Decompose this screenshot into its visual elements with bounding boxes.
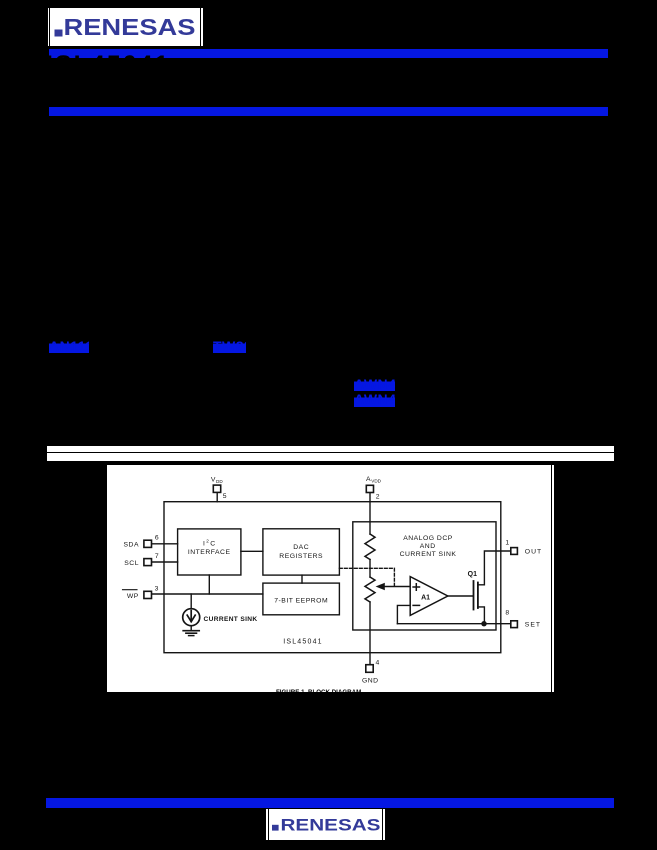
wire avdd down to resistor top bbox=[369, 493, 371, 535]
svg-text:1: 1 bbox=[505, 539, 509, 546]
wire i2c bottom to wp line bbox=[208, 575, 210, 594]
svg-text:GND: GND bbox=[362, 678, 379, 685]
dac registers block bbox=[263, 529, 340, 575]
wiper wire to op-amp bbox=[384, 586, 411, 588]
figure caption (mostly below panel, top sliver visible) bbox=[276, 690, 361, 696]
pin square WP (3) bbox=[144, 591, 152, 598]
svg-text:INTERFACE: INTERFACE bbox=[188, 549, 231, 556]
resistor zigzag upper (dcp) bbox=[365, 534, 375, 560]
link blob 4 bbox=[354, 393, 395, 407]
top logo box bbox=[48, 8, 203, 46]
op-amp A1 bbox=[410, 577, 448, 616]
set node junction dot bbox=[481, 621, 486, 626]
double horizontal rule bbox=[47, 446, 614, 461]
current sink arrow bbox=[190, 611, 192, 622]
resistor zigzag lower (dcp) bbox=[365, 577, 375, 602]
svg-text:ANALOG DCP: ANALOG DCP bbox=[403, 535, 453, 542]
svg-text:3: 3 bbox=[155, 586, 159, 593]
outer box ISL45041 bbox=[164, 502, 501, 653]
transistor Q1 channel bar bbox=[477, 583, 479, 609]
svg-text:REGISTERS: REGISTERS bbox=[279, 553, 323, 560]
link blob 2 bbox=[213, 339, 246, 353]
pin square VDD (5) bbox=[213, 485, 220, 492]
renesas logo bottom bbox=[266, 809, 384, 841]
i2c interface block bbox=[178, 529, 241, 575]
svg-text:WP: WP bbox=[127, 593, 139, 600]
title text (black, mostly invisible, top overlaps bar) bbox=[46, 53, 170, 78]
svg-text:2: 2 bbox=[206, 538, 209, 543]
blue bar 2 bbox=[49, 107, 608, 116]
wire scl to i2c bbox=[152, 561, 178, 563]
svg-text:7: 7 bbox=[155, 553, 159, 560]
link blob 3 bbox=[354, 377, 395, 391]
bottom logo box bbox=[266, 809, 384, 841]
set / feedback wire bbox=[397, 623, 510, 625]
wire op-amp output to gate bbox=[448, 595, 473, 597]
renesas logo top bbox=[48, 8, 203, 46]
svg-text:4: 4 bbox=[376, 659, 380, 666]
pin square SCL (7) bbox=[144, 559, 152, 566]
pin square SET (8) bbox=[511, 621, 518, 628]
link blob 1 bbox=[49, 339, 89, 353]
feedback to op-amp minus bbox=[397, 605, 410, 623]
svg-text:VDD: VDD bbox=[371, 479, 381, 484]
svg-text:Q1: Q1 bbox=[468, 571, 477, 578]
svg-text:8: 8 bbox=[505, 609, 509, 616]
wp overline bbox=[123, 589, 138, 591]
wire sink circle to ground bbox=[190, 626, 192, 630]
op-amp plus sign bbox=[413, 584, 419, 590]
7-bit eeprom block bbox=[263, 583, 340, 615]
pin square AVDD (2) bbox=[366, 485, 373, 492]
inner box analog dcp bbox=[353, 522, 496, 630]
ground symbol bbox=[183, 630, 199, 632]
blue bar 1 bbox=[49, 49, 608, 58]
svg-text:AND: AND bbox=[420, 543, 436, 550]
wire wp to eeprom bbox=[152, 593, 263, 595]
source wire to set node bbox=[478, 607, 485, 624]
svg-text:SCL: SCL bbox=[124, 560, 139, 567]
wire dac to eeprom bbox=[301, 575, 303, 583]
svg-text:7-BIT EEPROM: 7-BIT EEPROM bbox=[274, 598, 328, 605]
bottom blue bar bbox=[46, 798, 614, 808]
svg-text:OUT: OUT bbox=[525, 549, 542, 556]
pin square SDA (6) bbox=[144, 540, 152, 547]
pin square GND (4) bbox=[366, 665, 373, 673]
svg-text:ISL45041: ISL45041 bbox=[283, 638, 323, 645]
op-amp minus sign bbox=[413, 604, 419, 606]
svg-text:A: A bbox=[366, 476, 371, 483]
svg-text:SDA: SDA bbox=[124, 541, 139, 548]
wire resistor to gnd pin bbox=[369, 602, 371, 665]
svg-text:RENESAS: RENESAS bbox=[281, 816, 381, 834]
wire sda to i2c bbox=[152, 543, 178, 545]
drain wire to out bbox=[478, 551, 511, 585]
wiper arrowhead bbox=[376, 583, 385, 590]
svg-text:2: 2 bbox=[376, 494, 380, 501]
wire resistor middle bbox=[369, 560, 371, 578]
white diagram panel bbox=[106, 465, 554, 692]
svg-text:5: 5 bbox=[223, 493, 227, 500]
wire wp line down to current sink bbox=[190, 594, 192, 609]
wire vdd pin to outer box bbox=[216, 493, 218, 502]
svg-text:C: C bbox=[210, 540, 215, 547]
svg-text:CURRENT SINK: CURRENT SINK bbox=[204, 616, 258, 623]
wire i2c to dac bbox=[241, 550, 263, 552]
svg-text:I: I bbox=[203, 540, 205, 547]
svg-text:DAC: DAC bbox=[293, 544, 309, 551]
transistor Q1 gate bar bbox=[473, 581, 475, 610]
svg-text:SET: SET bbox=[525, 622, 541, 629]
current sink circle bbox=[183, 609, 200, 626]
svg-text:CURRENT SINK: CURRENT SINK bbox=[400, 551, 457, 558]
dashed wire dac to wiper bbox=[339, 567, 394, 569]
svg-text:A1: A1 bbox=[421, 594, 430, 601]
svg-text:DD: DD bbox=[216, 479, 223, 484]
svg-text:6: 6 bbox=[155, 534, 159, 541]
pin square OUT (1) bbox=[511, 548, 518, 555]
